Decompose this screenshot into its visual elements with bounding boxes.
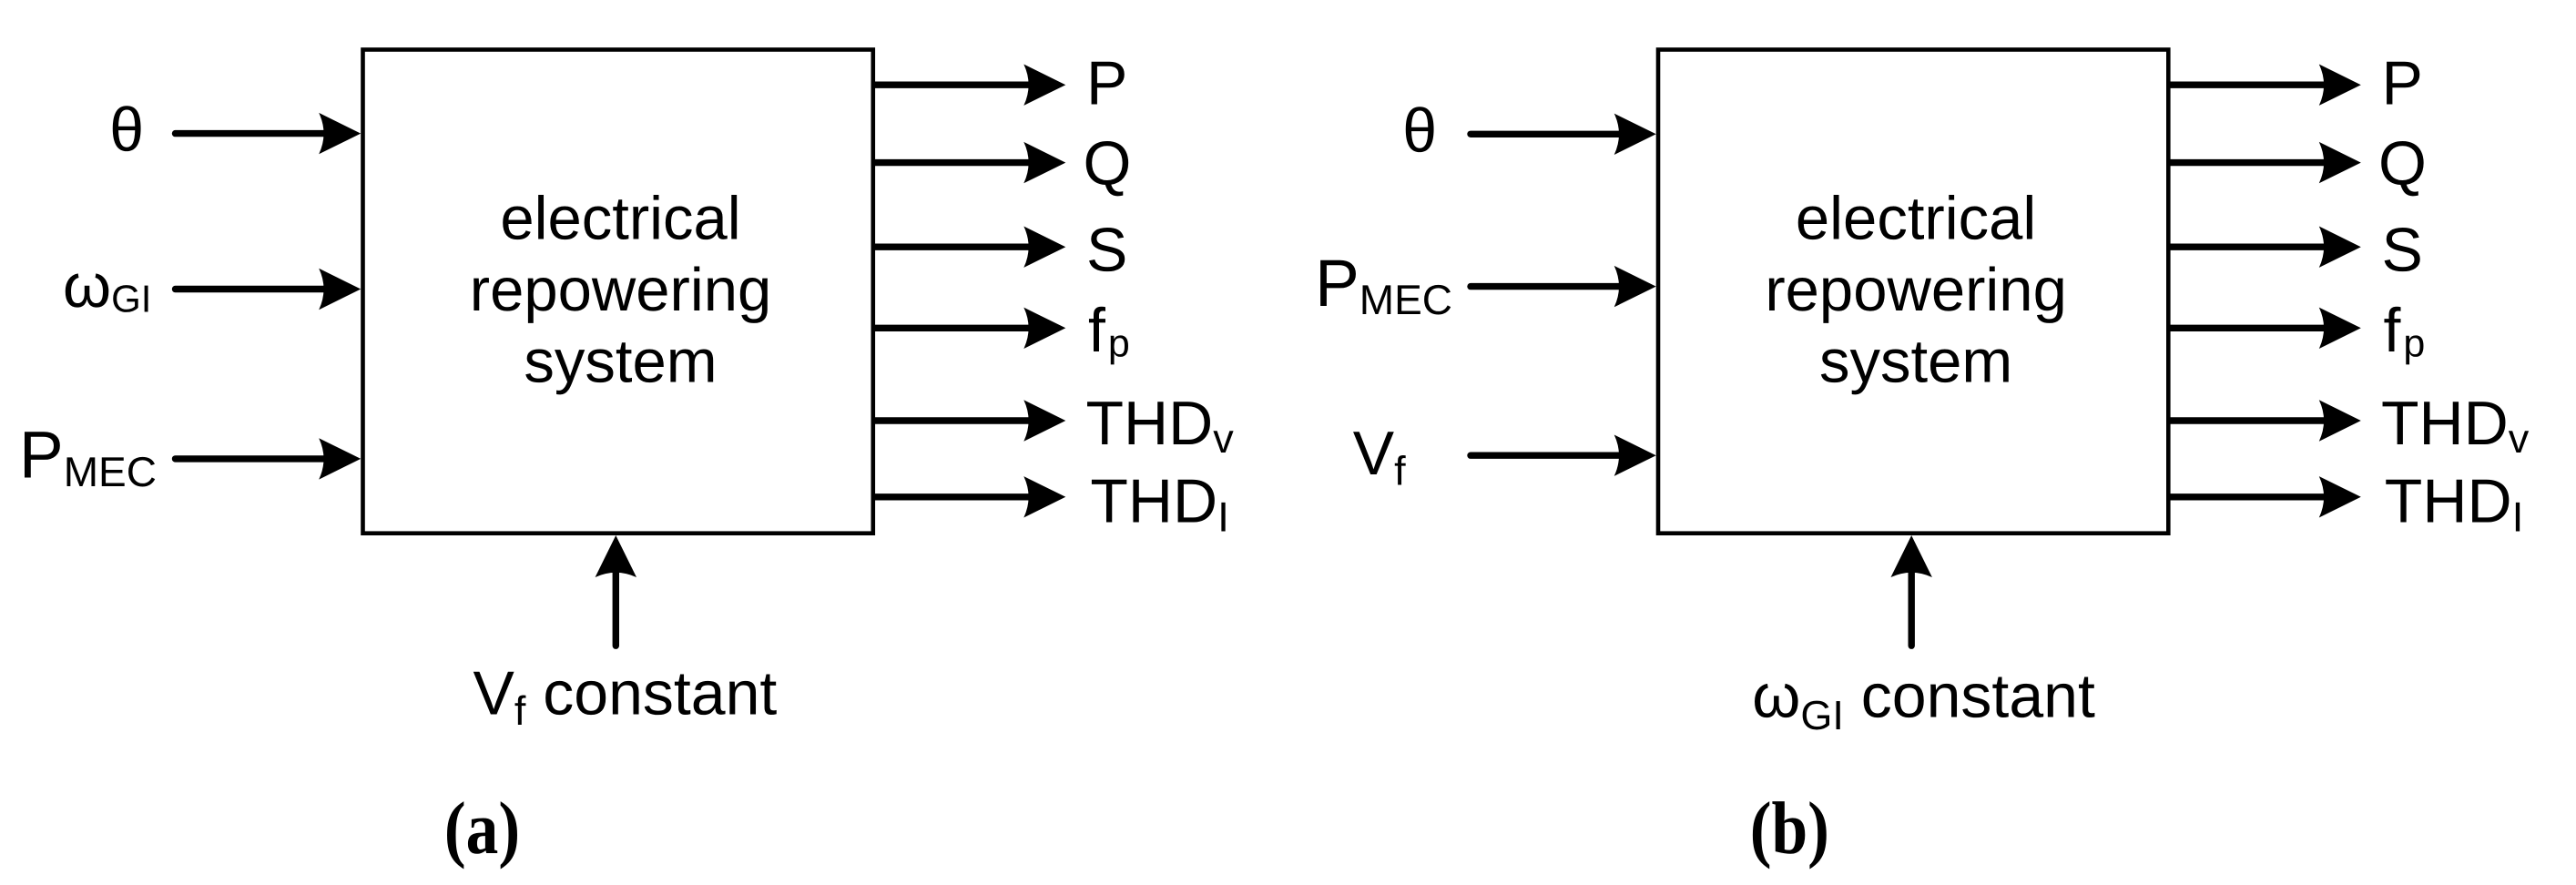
output arrow Q (b) <box>2168 159 2325 166</box>
block B: electrical repowering system box <box>1658 50 2168 534</box>
input arrow in2 (a) <box>176 286 325 292</box>
output arrow P (b) <box>2168 81 2325 87</box>
block A label: electrical repowering system <box>470 184 771 395</box>
svg-text:S: S <box>1086 216 1127 285</box>
block B label: electrical repowering system <box>1765 184 2066 395</box>
output arrow P (a) <box>873 81 1030 87</box>
svg-text:P: P <box>2382 49 2423 118</box>
svg-text:THDv: THDv <box>1086 389 1235 462</box>
bottom input arrow (a) constant parameter <box>613 572 619 646</box>
output arrow fp (a) <box>873 325 1030 331</box>
output arrow S (b) <box>2168 244 2325 250</box>
svg-text:electrical: electrical <box>500 184 740 252</box>
svg-text:Q: Q <box>1084 128 1132 198</box>
svg-text:S: S <box>2382 216 2423 285</box>
svg-text:system: system <box>524 327 717 395</box>
output arrow fp (b) <box>2168 325 2325 331</box>
svg-text:(a): (a) <box>444 787 520 870</box>
svg-text:Q: Q <box>2378 128 2427 198</box>
input arrow in1 (b) <box>1471 131 1620 137</box>
svg-text:electrical: electrical <box>1796 184 2036 252</box>
output arrow THDv (b) <box>2168 417 2325 423</box>
output arrow THDi (b) <box>2168 493 2325 500</box>
output arrow THDi (a) <box>873 493 1030 500</box>
svg-text:THDI: THDI <box>1090 467 1229 541</box>
svg-text:θ: θ <box>1402 96 1437 165</box>
svg-text:THDI: THDI <box>2385 467 2524 541</box>
bottom input arrow (b) constant parameter <box>1908 572 1914 646</box>
input arrow in2 (b) <box>1471 283 1620 290</box>
output arrow Q (a) <box>873 159 1030 166</box>
input arrow in3 (a) <box>176 455 325 462</box>
svg-text:repowering: repowering <box>470 256 771 324</box>
svg-text:P: P <box>1086 49 1127 118</box>
block A: electrical repowering system box <box>363 50 873 534</box>
svg-text:θ: θ <box>109 96 144 165</box>
svg-text:repowering: repowering <box>1765 256 2066 324</box>
svg-text:system: system <box>1819 327 2012 395</box>
output arrow THDv (a) <box>873 417 1030 423</box>
svg-text:THDv: THDv <box>2381 389 2530 462</box>
input arrow in1 (a) <box>176 130 325 137</box>
svg-text:(b): (b) <box>1750 787 1829 870</box>
output arrow S (a) <box>873 244 1030 250</box>
input arrow in3 (b) <box>1471 453 1620 459</box>
